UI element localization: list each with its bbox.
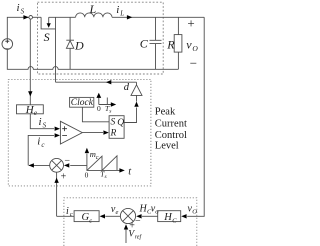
- m_c summing junction: [50, 158, 64, 172]
- i_S top wire arrowhead: [23, 15, 28, 19]
- arrowhead into summing right: [136, 214, 141, 218]
- svg-text:0: 0: [85, 170, 89, 179]
- svg-text:L: L: [119, 9, 124, 17]
- label Hc box: [163, 212, 177, 224]
- ramp horizontal axis arrowhead: [119, 168, 124, 172]
- label v_O: [186, 38, 198, 54]
- capacitor C branch wires: [155, 17, 157, 69]
- load resistor R branch wires: [177, 17, 179, 69]
- label i_c bottom: [66, 206, 73, 218]
- wire: switch to diode node: [49, 16, 70, 18]
- i_c wire into comparator minus input: [28, 135, 54, 165]
- arrowhead into Hc from output: [181, 214, 186, 218]
- i_S sense wire down to He box: [29, 19, 31, 105]
- svg-text:Level: Level: [155, 141, 179, 152]
- peak current control level dashed box: [8, 79, 151, 185]
- svg-text:R: R: [166, 38, 175, 52]
- comparator minus sign: [62, 134, 67, 136]
- svg-text:S: S: [44, 30, 50, 44]
- svg-text:c: c: [96, 155, 99, 161]
- wire: He box to comparator plus input: [30, 114, 54, 129]
- svg-text:+: +: [187, 15, 194, 30]
- svg-text:i: i: [66, 206, 69, 217]
- svg-text:S: S: [21, 8, 25, 16]
- clock box: [70, 97, 94, 107]
- sensing gain box He: [17, 105, 44, 114]
- svg-text:c: c: [70, 211, 73, 218]
- bottom rail with hops: [7, 49, 178, 69]
- svg-text:S: S: [111, 117, 116, 127]
- wire: source top to node: [7, 17, 29, 38]
- svg-text:s: s: [109, 109, 111, 115]
- svg-text:R: R: [110, 128, 117, 138]
- arrowhead into comparator plus: [55, 127, 60, 131]
- V_ref riser wire: [125, 229, 127, 243]
- i_S sense arrowhead: [28, 91, 32, 96]
- svg-text:Clock: Clock: [71, 98, 94, 108]
- label i_c at comparator: [37, 135, 45, 149]
- arrowhead into summing junction right: [64, 163, 69, 167]
- voltage control level dashed box (open at bottom): [64, 198, 197, 246]
- svg-text:Q: Q: [117, 118, 124, 128]
- svg-text:C: C: [172, 217, 177, 224]
- svg-text:−: −: [64, 156, 70, 167]
- driver buffer triangle: [131, 85, 142, 96]
- switch S: [41, 17, 55, 29]
- svg-text:0: 0: [97, 104, 101, 113]
- svg-text:v: v: [186, 38, 192, 52]
- ramp vertical axis arrowhead: [85, 148, 89, 153]
- label m_c: [90, 149, 99, 161]
- clock waveform: [96, 93, 116, 107]
- node i_S measurement (open circle): [29, 15, 33, 19]
- svg-text:L: L: [89, 2, 97, 16]
- label i_L: [116, 4, 124, 17]
- diode D branch wire: [69, 17, 71, 69]
- svg-text:Current: Current: [155, 119, 187, 130]
- svg-text:O: O: [192, 44, 198, 53]
- comparator output wire to latch R input: [82, 132, 103, 134]
- i_L wire arrowhead: [127, 15, 132, 19]
- svg-text:e: e: [116, 209, 119, 216]
- summing output wire to riser: [29, 164, 50, 166]
- svg-text:i: i: [17, 2, 20, 14]
- svg-text:c: c: [89, 217, 92, 224]
- ramp input wire to summing junction: [70, 164, 87, 166]
- wire: node to switch: [33, 16, 42, 18]
- svg-text:−: −: [135, 216, 141, 227]
- comparator: [60, 121, 82, 144]
- wire: diode node to inductor: [70, 16, 76, 18]
- svg-text:Control: Control: [155, 130, 187, 141]
- arrowhead on drive line: [106, 80, 111, 84]
- svg-text:i: i: [116, 4, 119, 16]
- label T_s ramp: [100, 169, 106, 180]
- Q output wire to driver: [124, 108, 136, 123]
- label V_ref: [128, 230, 142, 241]
- i_c riser from Gc up to summing junction: [56, 172, 58, 216]
- label He: [25, 104, 37, 117]
- inductor L: [76, 13, 112, 17]
- wire verror from summing to Gc: [105, 215, 120, 217]
- diode D symbol: [66, 40, 74, 48]
- output voltage summing junction: [120, 208, 135, 223]
- wire arrow to triangle base: [136, 95, 138, 101]
- svg-text:S: S: [43, 122, 47, 130]
- svg-text:−: −: [190, 55, 197, 70]
- converter power-stage dashed box: [38, 2, 164, 74]
- sawtooth ramp waveform: [87, 156, 117, 171]
- arrowhead into comparator minus: [55, 133, 60, 137]
- svg-text:C: C: [140, 36, 149, 50]
- driver apex stub: [136, 82, 138, 85]
- arrowhead into Gc: [100, 214, 105, 218]
- wire Hc output to summing junction: [142, 215, 158, 217]
- arrowhead at riser corner: [29, 163, 34, 167]
- SR latch box: [109, 116, 124, 139]
- svg-text:d: d: [124, 82, 130, 93]
- wire: right side down to voltage sensing: [187, 17, 204, 216]
- label i_S top: [17, 2, 25, 16]
- label Hc v_o: [139, 204, 160, 216]
- wire: inductor to output corner: [112, 16, 204, 18]
- gate drive line d to switch: [56, 29, 137, 82]
- arrowhead entering peak box: [54, 178, 58, 183]
- label T_s clock: [105, 104, 111, 115]
- svg-text:D: D: [74, 38, 84, 52]
- label v_o bottom right: [188, 203, 198, 215]
- svg-text:i: i: [37, 135, 40, 147]
- arrowhead into driver: [134, 102, 138, 107]
- compensation ramp axes: [87, 154, 120, 171]
- wire Gc output to i_c riser: [57, 215, 75, 217]
- label i_S at comparator: [39, 116, 47, 130]
- svg-text:e: e: [34, 109, 37, 117]
- svg-text:Peak: Peak: [155, 106, 176, 117]
- svg-text:i: i: [39, 116, 42, 128]
- label Gc: [82, 212, 93, 224]
- Gc compensator box: [74, 211, 99, 222]
- svg-text:s: s: [105, 174, 107, 180]
- svg-text:O: O: [192, 209, 197, 216]
- switch control arrowhead: [47, 23, 51, 28]
- capacitor C plates: [150, 40, 162, 43]
- arrowhead into latch R: [103, 130, 108, 134]
- comparator plus sign: [62, 126, 67, 131]
- voltage source Vin: [2, 39, 13, 50]
- label v_e: [111, 204, 119, 216]
- clock wire to latch S input: [82, 107, 109, 122]
- load resistor R body: [174, 35, 182, 53]
- svg-text:+: +: [61, 172, 67, 183]
- Hc voltage sensing box: [158, 211, 181, 222]
- arrowhead Vref into summing: [124, 224, 128, 229]
